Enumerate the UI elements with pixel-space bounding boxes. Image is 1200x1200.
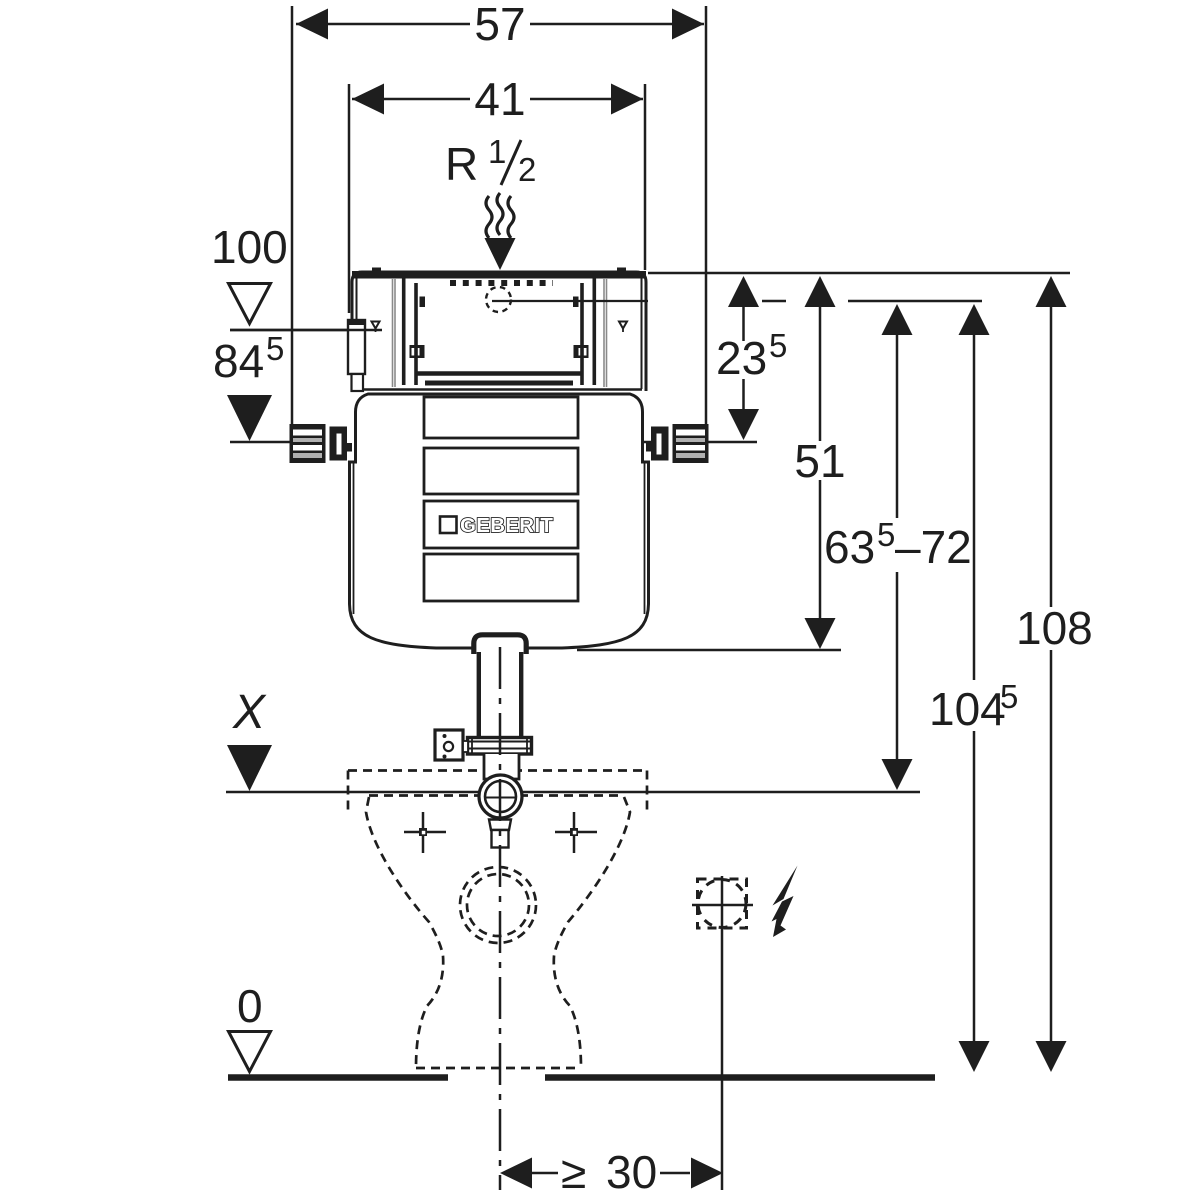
svg-text:23: 23 <box>716 332 767 384</box>
svg-text:5: 5 <box>769 327 787 364</box>
svg-text:2: 2 <box>518 151 536 188</box>
svg-text:GEBERIT: GEBERIT <box>460 514 553 537</box>
svg-text:5: 5 <box>266 330 284 367</box>
svg-text:R: R <box>445 138 478 190</box>
svg-text:5: 5 <box>877 516 895 553</box>
svg-text:1: 1 <box>488 133 506 170</box>
svg-text:51: 51 <box>794 435 845 487</box>
svg-text:63: 63 <box>824 521 875 573</box>
svg-text:≥: ≥ <box>561 1146 586 1198</box>
svg-text:84: 84 <box>213 335 264 387</box>
svg-text:0: 0 <box>237 980 263 1032</box>
svg-text:–72: –72 <box>895 521 972 573</box>
svg-text:108: 108 <box>1016 602 1093 654</box>
svg-text:57: 57 <box>474 0 525 50</box>
svg-text:30: 30 <box>606 1146 657 1198</box>
svg-text:41: 41 <box>474 73 525 125</box>
svg-text:104: 104 <box>929 683 1006 735</box>
svg-text:X: X <box>232 686 267 739</box>
svg-text:5: 5 <box>1000 678 1018 715</box>
svg-text:100: 100 <box>211 221 288 273</box>
